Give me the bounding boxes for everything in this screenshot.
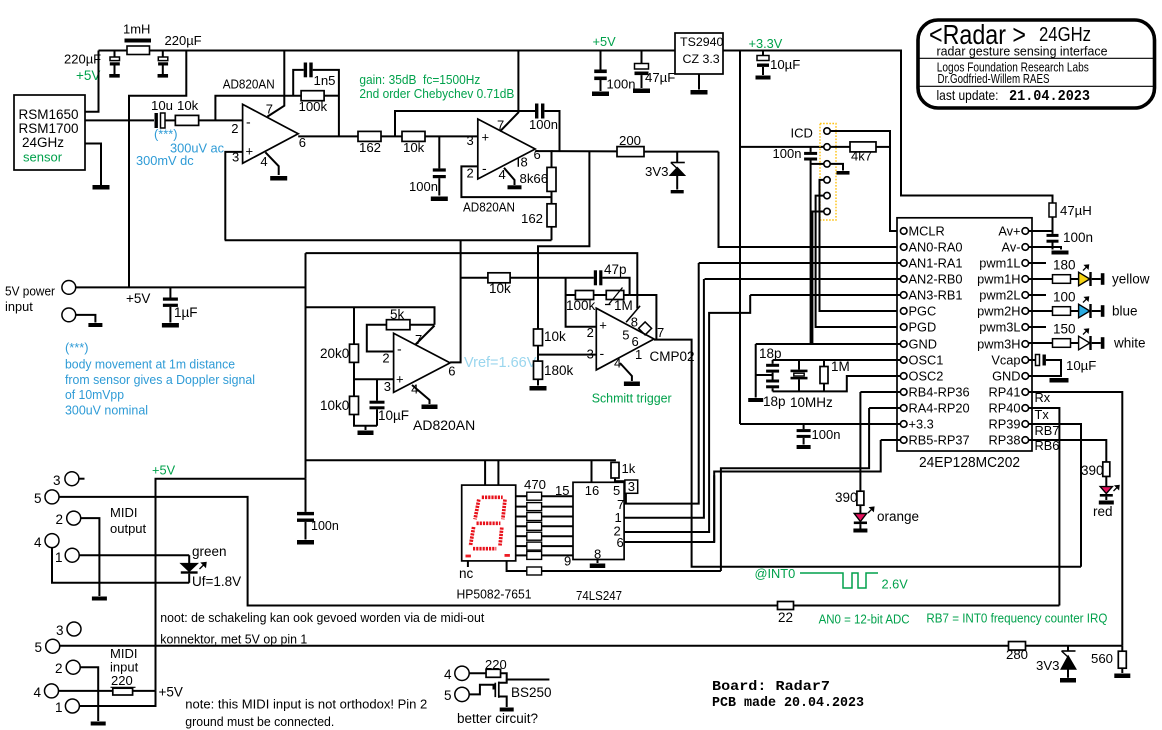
svg-text:Rx: Rx	[1035, 390, 1051, 405]
wire: MIDI out pin5 to Tx line	[59, 497, 1059, 606]
svg-text:AD820AN: AD820AN	[463, 200, 515, 215]
svg-text:10k: 10k	[403, 140, 425, 155]
wire: ICD pin1 to MCLR	[830, 131, 900, 231]
svg-text:(***): (***)	[154, 127, 177, 142]
svg-text:CMP02: CMP02	[650, 349, 695, 364]
wire: mid junction to gnd riser	[756, 374, 773, 376]
LED yellow	[1079, 272, 1090, 286]
svg-text:konnektor, met 5V op pin 1: konnektor, met 5V op pin 1	[160, 632, 307, 647]
U3 left pin PGD	[900, 324, 907, 331]
U3 left pin MCLR	[900, 228, 907, 235]
resistor 280	[1009, 642, 1026, 651]
svg-text:Av+: Av+	[998, 224, 1020, 239]
svg-text:AN0 = 12-bit ADC: AN0 = 12-bit ADC	[819, 612, 910, 627]
svg-text:10µF: 10µF	[1066, 358, 1096, 373]
wire: U1 pin7 to +5 rail	[267, 51, 284, 117]
svg-text:390: 390	[1081, 463, 1104, 478]
U3 left pin AN3-RB1	[900, 292, 907, 299]
svg-text:5V power: 5V power	[5, 284, 56, 299]
svg-text:10k0: 10k0	[320, 398, 349, 413]
wire: Vref to 10k divider row	[461, 277, 488, 279]
wire: Av+ net with 47uH	[1029, 230, 1053, 232]
svg-text:green: green	[192, 544, 227, 559]
ground (power input)	[88, 323, 102, 327]
wire: display nc stem	[467, 561, 469, 567]
wire: pwm2L stub	[1029, 294, 1046, 296]
capacitor 1n5 feedback U1	[293, 70, 304, 96]
resistor 560	[1121, 646, 1123, 652]
decoder 74LS247 box	[573, 482, 624, 559]
svg-text:16: 16	[585, 483, 599, 498]
inductor L1 1mH	[125, 39, 152, 43]
svg-text:orange: orange	[877, 509, 919, 524]
wire: U2 pin4 to ground	[504, 168, 515, 185]
svg-text:Tx: Tx	[1035, 407, 1050, 422]
svg-text:10µF: 10µF	[378, 408, 409, 423]
svg-text:RB4-RP36: RB4-RP36	[909, 385, 970, 400]
U3 left pin AN0-RA0	[900, 244, 907, 251]
capacitor 18p lower	[772, 373, 774, 380]
svg-text:100n: 100n	[607, 77, 636, 92]
capacitor 18p upper	[772, 360, 774, 364]
svg-text:100n: 100n	[529, 117, 558, 132]
svg-text:2: 2	[382, 351, 389, 366]
svg-text:+3.3: +3.3	[909, 417, 934, 432]
ICD pin 4	[824, 177, 830, 183]
svg-text:RB7 = INT0 frequency counter I: RB7 = INT0 frequency counter IRQ	[926, 611, 1107, 626]
svg-text:2nd order Chebychev 0.71dB: 2nd order Chebychev 0.71dB	[359, 86, 514, 101]
U3 right pin RP41	[1022, 389, 1029, 396]
svg-text:3: 3	[467, 133, 474, 148]
wire: Vref output riser	[450, 240, 461, 362]
svg-text:+5V: +5V	[152, 463, 176, 478]
wire: 74LS247 pin16 stem	[591, 460, 593, 482]
svg-text:pwm2H: pwm2H	[977, 304, 1020, 319]
ground (ICD pin3)	[837, 171, 850, 175]
svg-text:HP5082-7651: HP5082-7651	[457, 587, 532, 602]
resistor 10k (comparator feed)	[488, 273, 510, 283]
svg-text:47µH: 47µH	[1060, 203, 1092, 218]
wire: +3.3 to ICD pin2	[740, 146, 824, 148]
comparator U5 CMP02	[596, 308, 654, 370]
ground (10uF +3.3)	[756, 76, 771, 80]
wire: 74LS247 BCD input D to AN1	[624, 263, 699, 504]
wire: AN0 feed	[719, 152, 901, 247]
wire: +3.3 row	[740, 423, 900, 425]
svg-text:8k66: 8k66	[520, 171, 549, 186]
wire: ICD pin6 to GND row	[812, 212, 823, 345]
svg-text:3V3: 3V3	[645, 164, 668, 179]
svg-text:CZ 3.3: CZ 3.3	[683, 52, 720, 66]
resistor 100k feedback U1	[301, 91, 324, 101]
resistor 162 (stage link)	[358, 131, 381, 141]
connector MIDI out pin4	[45, 534, 59, 548]
U3 left pin GND	[900, 341, 907, 348]
ground (U5 pin4)	[624, 382, 640, 387]
svg-text:20k0: 20k0	[320, 346, 349, 361]
svg-text:4k7: 4k7	[851, 149, 872, 164]
connector BS250 pin5	[455, 687, 469, 701]
svg-text:input: input	[110, 660, 139, 675]
wire: ICD pin5 to PGD	[816, 196, 901, 327]
svg-text:RP39: RP39	[988, 417, 1020, 432]
ground (U2 pin4)	[508, 185, 522, 189]
svg-text:3: 3	[53, 473, 61, 488]
svg-text:2.6V: 2.6V	[882, 577, 909, 592]
svg-text:5: 5	[622, 328, 629, 343]
svg-text:+3.3V: +3.3V	[749, 36, 783, 51]
svg-text:24GHz: 24GHz	[22, 135, 64, 150]
connector MIDI in pin1	[65, 699, 79, 713]
svg-text:MCLR: MCLR	[909, 224, 945, 239]
resistor 162 vertical	[551, 191, 553, 203]
wire: +5 jog to MIDI rail	[156, 479, 306, 691]
ground (orange LED)	[853, 529, 867, 533]
ICD pin 5	[824, 192, 830, 198]
svg-text:5: 5	[35, 640, 43, 655]
svg-text:21.04.2023: 21.04.2023	[1009, 89, 1090, 105]
U3 left pin RB4-RP36	[900, 389, 907, 396]
svg-text:RSM1650: RSM1650	[19, 107, 79, 122]
wire: U1 pin4 to ground	[265, 152, 278, 175]
connector 5V power pin-	[62, 308, 76, 322]
ground (sensor)	[93, 185, 110, 190]
svg-text:1M: 1M	[831, 359, 850, 374]
transistor Q1 BS250	[499, 680, 507, 683]
wire: MCU left AN rows to corners	[699, 262, 901, 264]
svg-text:10k: 10k	[177, 98, 199, 113]
svg-text:300uV nominal: 300uV nominal	[65, 402, 148, 417]
ground (MIDI out pin2)	[92, 597, 107, 601]
svg-text:3: 3	[628, 479, 635, 494]
wire: RP41/Rx to bottom right	[1029, 392, 1123, 646]
svg-text:AN2-RB0: AN2-RB0	[909, 272, 963, 287]
wire: +5 display rail	[306, 459, 616, 461]
resistor 180k	[534, 361, 543, 379]
svg-text:6: 6	[448, 364, 455, 379]
capacitor 10uF (Vref)	[376, 379, 378, 400]
U3 left pin OSC2	[900, 373, 907, 380]
svg-text:body movement at 1m distance: body movement at 1m distance	[65, 357, 235, 372]
wire: U2 output to 200 resistor	[552, 150, 618, 152]
svg-text:390: 390	[835, 490, 858, 505]
U3 left pin AN1-RA1	[900, 260, 907, 267]
svg-text:300mV dc: 300mV dc	[136, 153, 194, 168]
capacitor 100n (Av+)	[1052, 231, 1054, 234]
connector MIDI in pin5	[46, 639, 60, 653]
U3 right pin RP40	[1022, 405, 1029, 412]
connector 3 box (pin3 tie)	[615, 480, 625, 482]
ground (Vref divider)	[365, 426, 367, 430]
svg-text:100n: 100n	[1063, 230, 1093, 245]
resistor 10k (stage 2 input)	[402, 131, 425, 141]
U3 left pin +3.3	[900, 421, 907, 428]
svg-text:100n: 100n	[409, 179, 438, 194]
svg-text:+: +	[599, 318, 607, 333]
svg-text:Dr.Godfried-Willem RAES: Dr.Godfried-Willem RAES	[938, 71, 1050, 86]
svg-text:1mH: 1mH	[123, 22, 150, 37]
capacitor 10uF (+3.3)	[762, 51, 764, 56]
ground (zener bottom)	[1060, 678, 1076, 683]
svg-text:better circuit?: better circuit?	[457, 711, 538, 726]
capacitor 47p	[594, 270, 597, 285]
svg-text:+: +	[396, 372, 404, 387]
ground (560)	[1114, 674, 1130, 679]
capacitor 100n (ICD)	[810, 147, 812, 152]
resistor 20k0	[350, 344, 359, 362]
U3 right pin pwm3L	[1022, 324, 1029, 331]
wire: U2 output to 8k66	[535, 151, 551, 167]
svg-text:10µF: 10µF	[770, 57, 800, 72]
svg-text:7: 7	[657, 325, 664, 340]
ground (100n +5 MIDI)	[297, 540, 314, 545]
svg-text:-: -	[600, 345, 605, 361]
svg-text:pwm2L: pwm2L	[979, 288, 1020, 303]
wire: ICD pin4 to PGC	[820, 180, 901, 311]
resistor 1M adjustable	[594, 294, 607, 296]
resistor 10k input	[165, 119, 175, 121]
U3 left pin PGC	[900, 308, 907, 315]
svg-text:RP41: RP41	[988, 385, 1020, 400]
svg-text:note: this MIDI input is not o: note: this MIDI input is not orthodox! P…	[185, 697, 427, 712]
wire: U4 pin3 input	[354, 378, 394, 380]
zener diode 3V3 (bottom)	[1067, 646, 1069, 651]
svg-text:+5V: +5V	[159, 685, 183, 700]
svg-text:560: 560	[1091, 651, 1113, 666]
svg-text:22: 22	[778, 610, 793, 625]
wire: Tx line 22 resistor	[1026, 645, 1123, 647]
svg-text:Vref=1.66V: Vref=1.66V	[464, 355, 537, 371]
svg-text:3: 3	[384, 379, 391, 394]
svg-text:10k: 10k	[489, 281, 511, 296]
svg-text:-: -	[482, 160, 487, 176]
svg-text:1: 1	[55, 700, 63, 715]
svg-text:Av-: Av-	[1002, 240, 1021, 255]
wire: 74LS247 BCD input to AN3 (jog)	[624, 295, 750, 532]
capacitor 10u coupling	[155, 113, 158, 128]
svg-text:RB5-RP37: RB5-RP37	[909, 433, 970, 448]
resistor 8k66	[547, 167, 556, 191]
svg-text:1n5: 1n5	[314, 73, 336, 88]
capacitor 1uF	[169, 287, 171, 297]
svg-text:220: 220	[111, 673, 133, 688]
svg-text:3: 3	[56, 623, 64, 638]
wire: display common to RA4 riser	[542, 570, 721, 572]
ground (100n +5)	[592, 92, 609, 97]
wire: U5 pin4 to ground	[620, 363, 632, 381]
capacitor 47uF (+5 rail)	[641, 51, 643, 64]
connector MIDI in pin4	[45, 684, 59, 698]
svg-text:blue: blue	[1112, 304, 1138, 319]
svg-text:of 10mVpp: of 10mVpp	[65, 387, 124, 402]
U3 left pin RA4-RP20	[900, 405, 907, 412]
op-amp U2 AD820AN (second stage)	[478, 119, 535, 179]
wire: riser x129 from 5V input to rail via x186	[129, 51, 186, 288]
capacitor 220uF (left)	[114, 51, 116, 58]
svg-text:-: -	[246, 114, 251, 130]
wire: +3.3 trunk down to MCU	[739, 51, 741, 425]
wire: OSC1 row	[773, 359, 901, 361]
capacitor 100n (MCU +3.3)	[803, 424, 805, 429]
wire: 5V power input row	[76, 286, 306, 288]
svg-text:AD820AN: AD820AN	[223, 77, 275, 92]
U3 left pin AN2-RB0	[900, 276, 907, 283]
svg-text:RP40: RP40	[988, 401, 1020, 416]
svg-text:8: 8	[521, 155, 528, 170]
svg-text:PCB made 20.04.2023: PCB made 20.04.2023	[712, 696, 864, 711]
svg-text:pwm1L: pwm1L	[979, 256, 1020, 271]
zener diode 3V3 (signal clamp)	[676, 152, 678, 162]
LED blue	[1079, 304, 1090, 318]
svg-text:+5V: +5V	[126, 291, 150, 306]
ground (180k)	[530, 386, 547, 391]
svg-text:180k: 180k	[544, 363, 574, 378]
wire: GND row to ground	[756, 343, 901, 345]
resistor 5k feedback	[386, 320, 410, 330]
svg-text:radar gesture sensing interfac: radar gesture sensing interface	[937, 44, 1108, 59]
svg-text:RP38: RP38	[988, 433, 1020, 448]
wire: +5V top rail	[99, 50, 128, 52]
U3 right pin RP39	[1022, 421, 1029, 428]
LED white	[1079, 336, 1090, 350]
resistor 470 segment 6	[516, 545, 527, 547]
U3 left pin OSC1	[900, 357, 907, 364]
svg-text:1: 1	[55, 550, 63, 565]
svg-text:15: 15	[555, 483, 569, 498]
svg-text:pwm1H: pwm1H	[977, 272, 1020, 287]
svg-text:4: 4	[34, 535, 42, 550]
resistor 1k (pin5 pullup)	[611, 462, 619, 478]
resistor 470 segment 3	[516, 516, 527, 518]
svg-text:input: input	[5, 299, 33, 314]
title block rounded box	[918, 20, 1155, 108]
svg-text:BS250: BS250	[511, 685, 552, 700]
wire: 74LS247 BCD input to AN2	[624, 279, 704, 518]
svg-text:5k: 5k	[390, 307, 405, 322]
svg-text:100k: 100k	[566, 298, 596, 313]
wire: U4 pin7 diagonal	[416, 326, 435, 345]
svg-text:GND: GND	[992, 369, 1020, 384]
ground (U4 pin4)	[422, 405, 438, 410]
wire: display anode stems	[484, 460, 486, 485]
svg-text:2: 2	[467, 166, 474, 181]
ground (red LED)	[1099, 501, 1114, 505]
svg-text:Schmitt trigger: Schmitt trigger	[592, 391, 673, 406]
divider line 2	[919, 85, 1153, 87]
svg-text:100: 100	[1053, 290, 1076, 305]
svg-text:PGC: PGC	[909, 304, 937, 319]
svg-text:4: 4	[614, 355, 621, 370]
ICD pin 1	[824, 128, 830, 134]
svg-text:RSM1700: RSM1700	[19, 121, 79, 136]
wire: RB4 row to orange LED	[860, 391, 900, 393]
ground (47uF)	[633, 89, 650, 94]
wire: 74LS247 BCD input to RB5	[624, 475, 714, 542]
svg-text:Board: Radar7: Board: Radar7	[712, 680, 830, 695]
svg-text:47µF: 47µF	[645, 70, 675, 85]
LED orange	[859, 505, 861, 513]
op-amp U4 AD820AN (Vref generator)	[394, 333, 451, 392]
wire: crystal bottom rail to OSC2	[773, 376, 901, 391]
wire: +5 trunk vertical	[305, 253, 307, 479]
ground (1uF)	[162, 323, 179, 328]
svg-text:(***): (***)	[65, 340, 88, 355]
svg-text:ICD: ICD	[791, 126, 813, 141]
svg-text:OSC2: OSC2	[909, 369, 944, 384]
ICD pin 3	[824, 161, 830, 167]
ground (100n MCU)	[797, 445, 811, 449]
svg-text:470: 470	[524, 477, 546, 492]
wire: U1 feedback to pin2	[215, 96, 301, 121]
connector MIDI in pin3	[67, 622, 81, 636]
capacitor 100n to gnd at U2 +input	[438, 136, 440, 168]
svg-text:pwm3L: pwm3L	[979, 320, 1020, 335]
resistor 470 segment 4	[516, 525, 527, 527]
svg-text:5: 5	[34, 491, 42, 506]
svg-text:nc: nc	[459, 566, 474, 581]
svg-text:18p: 18p	[763, 394, 786, 409]
svg-text:PGD: PGD	[909, 320, 937, 335]
ICD pin 6	[824, 208, 830, 214]
svg-text:5: 5	[613, 483, 620, 498]
svg-text:162: 162	[521, 211, 543, 226]
U3 right pin pwm2H	[1022, 308, 1029, 315]
U3 right pin Vcap	[1022, 357, 1029, 364]
wire: hysteresis to output	[630, 295, 657, 340]
connector MIDI in pin2	[66, 660, 80, 674]
svg-text:+5V: +5V	[76, 68, 100, 83]
resistor 390 (red LED)	[1103, 462, 1110, 477]
capacitor 10uF (Vcap)	[1029, 359, 1036, 361]
svg-text:GND: GND	[909, 337, 937, 352]
svg-text:8: 8	[594, 547, 601, 562]
svg-text:1M: 1M	[614, 298, 633, 313]
svg-text:3: 3	[587, 346, 594, 361]
wire: pwm1L stub	[1029, 262, 1046, 264]
wire: comparator supply line	[306, 253, 638, 308]
resistor 100 (blue LED)	[1029, 310, 1053, 312]
ground (zener)	[671, 190, 684, 193]
ground (74LS247 pin8)	[597, 560, 599, 564]
svg-text:RB7: RB7	[1035, 423, 1060, 438]
resistor 220 (MIDI in)	[113, 688, 133, 695]
resistor 10k0	[350, 396, 359, 414]
connector MIDI out pin1	[65, 548, 79, 562]
U3 right pin Av-	[1022, 244, 1029, 251]
svg-text:RA4-RP20: RA4-RP20	[909, 401, 970, 416]
svg-text:180: 180	[1053, 258, 1076, 273]
svg-text:pwm3H: pwm3H	[977, 337, 1020, 352]
svg-text:OSC1: OSC1	[909, 353, 944, 368]
svg-text:yellow: yellow	[1112, 272, 1150, 287]
svg-text:red: red	[1093, 504, 1113, 519]
wire: 100n bottom to GND row	[810, 161, 812, 345]
op-amp U1 AD820AN (first stage)	[243, 104, 299, 163]
7-segment display HP5082-7651 box	[462, 485, 516, 561]
wire: sensor signal out	[85, 119, 154, 121]
divider line 1	[919, 57, 1153, 59]
svg-text:150: 150	[1053, 322, 1076, 337]
svg-text:AN1-RA1: AN1-RA1	[909, 256, 963, 271]
wire: U2 pin7 to rail	[500, 51, 518, 132]
wire: comparator - input	[538, 354, 596, 356]
svg-text:AD820AN: AD820AN	[413, 417, 475, 433]
wire: MCU GND right to gnd	[1029, 376, 1061, 377]
wire: Vref section rail	[306, 307, 435, 325]
wire: +3.3V rail from regulator to title block corner	[723, 51, 1053, 204]
wire: MIDI in pin5 Rx line	[60, 645, 1009, 647]
ground (U1 pin4)	[270, 176, 287, 181]
